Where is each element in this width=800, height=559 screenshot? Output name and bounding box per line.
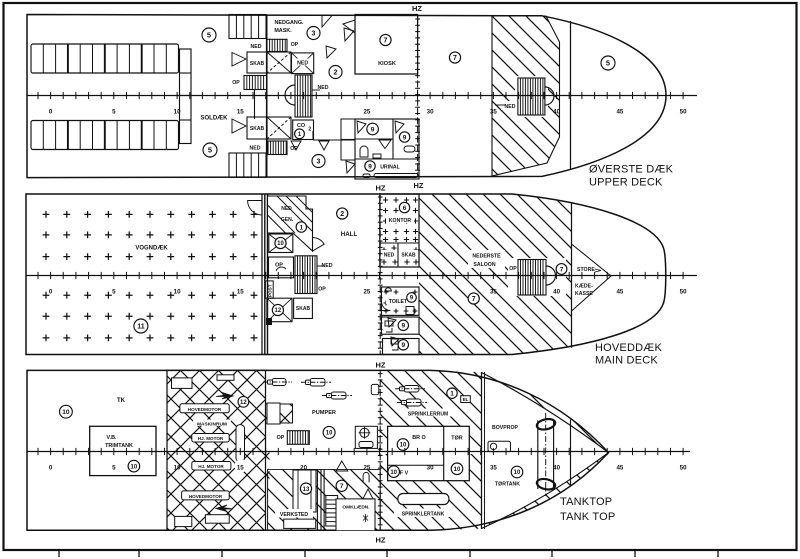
svg-text:TANKTOP: TANKTOP	[560, 496, 612, 508]
svg-text:45: 45	[616, 289, 623, 296]
svg-text:10: 10	[400, 443, 407, 449]
svg-text:5: 5	[112, 109, 116, 116]
hatched area fwd upper deck	[492, 16, 560, 176]
circled 9 wc1	[367, 123, 379, 135]
svg-text:KIOSK: KIOSK	[378, 61, 396, 67]
svg-text:3: 3	[317, 159, 321, 166]
bulkhead fwd upper deck	[570, 21, 572, 170]
svg-text:15: 15	[237, 289, 244, 296]
svg-text:TOILET: TOILET	[389, 299, 408, 305]
circled 1 upper deck	[295, 129, 305, 139]
circled 1 main deck	[296, 222, 306, 232]
svg-text:25: 25	[363, 465, 370, 472]
door kiosk	[343, 20, 355, 33]
circled 7 saloon low	[468, 293, 479, 304]
svg-text:PUMPER: PUMPER	[312, 410, 336, 416]
svg-text:50: 50	[680, 465, 687, 472]
ned skab labels	[381, 250, 397, 257]
forepeak V chain locker	[572, 244, 612, 311]
circled 5 aft top	[202, 28, 216, 42]
vb trimtank box	[90, 426, 156, 475]
doors toilet	[357, 121, 366, 133]
svg-text:1: 1	[299, 224, 303, 231]
svg-text:OP: OP	[232, 80, 240, 86]
svg-text:7: 7	[384, 38, 388, 45]
svg-text:HZ: HZ	[376, 184, 386, 193]
door hall	[313, 237, 325, 251]
dark elbow near wall	[266, 318, 272, 325]
svg-text:40: 40	[553, 465, 560, 472]
svg-text:9: 9	[368, 163, 372, 170]
svg-text:7: 7	[472, 296, 476, 303]
svg-text:NED: NED	[281, 206, 292, 212]
svg-text:9: 9	[403, 134, 407, 141]
svg-text:9: 9	[371, 126, 375, 133]
pill box engine room	[236, 425, 245, 462]
toilet block main deck	[381, 287, 419, 315]
el box	[461, 396, 471, 403]
hj motor 2	[192, 462, 231, 471]
kontor label	[386, 215, 414, 223]
urinal trough small	[363, 174, 370, 178]
svg-text:5: 5	[208, 146, 212, 155]
svg-text:HALL: HALL	[341, 231, 358, 238]
svg-text:7: 7	[560, 266, 564, 273]
hull outline upper deck	[27, 15, 666, 178]
bow thruster tunnel	[537, 421, 539, 490]
svg-text:HZ: HZ	[414, 181, 424, 190]
arrow bottom engine room	[216, 505, 233, 512]
svg-text:KONTOR: KONTOR	[389, 218, 412, 224]
circled 12 engine room	[238, 396, 249, 407]
cabin 9b main deck	[383, 339, 420, 355]
bulkhead fwd main deck	[571, 203, 573, 348]
svg-text:35: 35	[490, 289, 497, 296]
main stair upper deck	[295, 75, 312, 117]
svg-text:2: 2	[308, 127, 311, 133]
seat rows aft top	[31, 44, 179, 73]
svg-text:URINAL: URINAL	[380, 165, 400, 171]
door fan at wall top	[248, 201, 262, 216]
svg-text:45: 45	[616, 109, 623, 116]
svg-text:TØRTANK: TØRTANK	[495, 482, 520, 488]
superstructure wall main deck	[261, 194, 263, 355]
svg-text:TRIMTANK: TRIMTANK	[105, 443, 133, 449]
midship wall upper deck	[266, 15, 268, 178]
vogndaek label	[133, 242, 171, 251]
bottle verksted	[363, 472, 369, 482]
stair bottom NED/OP	[268, 141, 287, 155]
circled 11	[134, 319, 148, 333]
svg-text:GEN.: GEN.	[281, 217, 294, 223]
svg-text:9: 9	[401, 323, 405, 330]
svg-text:15: 15	[237, 109, 244, 116]
svg-text:5: 5	[112, 289, 116, 296]
svg-text:TØR: TØR	[451, 436, 462, 442]
HZ section line tank top	[378, 371, 383, 531]
svg-text:30: 30	[427, 465, 434, 472]
circled 1 tank top	[447, 388, 457, 398]
svg-text:SPRINKLERTANK: SPRINKLERTANK	[402, 512, 445, 518]
svg-text:10: 10	[131, 464, 138, 470]
crossed box bottom	[267, 117, 291, 139]
svg-text:HOVEDMOTOR: HOVEDMOTOR	[188, 407, 222, 412]
svg-text:STORE: STORE	[577, 267, 595, 273]
bow inner line top	[430, 371, 609, 453]
svg-text:12: 12	[275, 308, 282, 314]
svg-text:HZ: HZ	[376, 536, 386, 545]
centerline main deck	[26, 272, 697, 279]
arrow top engine room	[216, 393, 233, 400]
bow thruster motor	[488, 441, 511, 451]
vogndaek plus grid	[43, 211, 258, 341]
circled 13	[300, 483, 311, 494]
svg-text:OP: OP	[318, 287, 326, 293]
hull outline tank top	[27, 370, 609, 530]
svg-text:10: 10	[62, 409, 70, 416]
stair saloon	[508, 258, 566, 296]
svg-text:SKAB: SKAB	[250, 126, 265, 132]
circled 10 tortank	[511, 466, 523, 478]
svg-text:MASKINRUM: MASKINRUM	[197, 421, 227, 427]
windbreak bottom	[229, 153, 266, 177]
cross mark	[363, 514, 368, 522]
svg-text:9: 9	[401, 342, 405, 349]
verksted bottom box	[284, 519, 316, 528]
wall left of toilet block	[313, 139, 355, 141]
bow inner line bottom	[430, 453, 609, 531]
svg-text:OMKLÆDN.: OMKLÆDN.	[342, 505, 369, 511]
equipment column	[355, 426, 377, 448]
sprinkler pumps	[395, 386, 425, 393]
svg-text:HOVEDDÆK: HOVEDDÆK	[595, 342, 662, 354]
svg-text:SKAB: SKAB	[296, 306, 311, 312]
ned box top	[292, 53, 314, 74]
engine room cross hatch	[167, 370, 266, 530]
svg-text:10: 10	[174, 465, 181, 472]
svg-text:UPPER DECK: UPPER DECK	[589, 177, 663, 189]
svg-text:10: 10	[454, 467, 461, 473]
toilet block upper deck	[355, 119, 419, 179]
urinal trough	[374, 174, 418, 178]
stair top NED/OP	[267, 39, 287, 51]
svg-text:NED: NED	[250, 146, 261, 152]
engine room small boxes top	[172, 378, 193, 389]
svg-text:MASK.: MASK.	[274, 28, 292, 34]
svg-text:HZ: HZ	[412, 4, 422, 13]
station 15 white circle	[235, 460, 248, 473]
windbreak top	[229, 15, 266, 39]
svg-text:TANK TOP: TANK TOP	[560, 511, 615, 523]
svg-text:40: 40	[553, 109, 560, 116]
svg-text:SKAB: SKAB	[250, 61, 265, 67]
svg-text:SALOON: SALOON	[473, 262, 495, 268]
svg-text:BOVPROP: BOVPROP	[492, 425, 518, 431]
circled 5 fwd	[601, 56, 615, 70]
pumper room boundary	[266, 404, 293, 423]
omklaedn room	[336, 499, 375, 530]
svg-text:VERKSTED: VERKSTED	[280, 512, 309, 518]
svg-text:50: 50	[680, 109, 687, 116]
circled 2 upper deck	[329, 66, 342, 79]
svg-text:CO: CO	[297, 123, 305, 129]
hj motor 1	[192, 434, 229, 443]
svg-text:5: 5	[606, 59, 610, 68]
verksted area hatch	[268, 469, 381, 530]
post box	[265, 281, 273, 298]
door omklaedn 2	[363, 489, 373, 499]
svg-text:KÆDE-: KÆDE-	[575, 284, 593, 290]
circled 3 bottom	[312, 155, 325, 168]
svg-text:NEDGANG.: NEDGANG.	[274, 20, 304, 26]
circled 6	[399, 202, 409, 212]
svg-text:7: 7	[340, 483, 344, 490]
svg-text:NED: NED	[297, 61, 308, 67]
svg-text:OP: OP	[509, 266, 517, 272]
door triangles below co2	[291, 141, 301, 150]
skab main deck	[294, 298, 313, 318]
svg-text:25: 25	[363, 289, 370, 296]
svg-text:KASSE: KASSE	[575, 291, 593, 297]
svg-text:13: 13	[303, 487, 310, 493]
svg-text:NED: NED	[251, 44, 262, 50]
op stair small	[244, 76, 267, 90]
svg-text:POST: POST	[268, 284, 273, 297]
bulkhead engine fwd	[481, 372, 483, 529]
stair mid main deck	[295, 256, 317, 294]
stair treads verksted	[326, 496, 338, 527]
svg-text:10: 10	[174, 289, 181, 296]
sprinklerrum label	[402, 409, 454, 417]
white box near pumper wall	[267, 403, 280, 424]
svg-text:7: 7	[453, 55, 457, 62]
co2 room	[293, 120, 314, 140]
svg-text:HJ. MOTOR: HJ. MOTOR	[198, 436, 224, 441]
circled 7 at stair	[556, 264, 567, 275]
hull outline main deck	[26, 194, 666, 355]
svg-text:35: 35	[490, 109, 497, 116]
svg-text:SPRINKLERRUM: SPRINKLERRUM	[408, 412, 448, 418]
svg-text:NED: NED	[505, 104, 516, 110]
svg-text:6: 6	[403, 205, 407, 212]
skab bottom	[232, 119, 246, 133]
casing column amidships	[180, 49, 192, 144]
circled 2 main deck	[337, 208, 348, 219]
op box main deck	[269, 257, 294, 278]
circled 7 tank top	[336, 480, 347, 491]
svg-text:SKAB: SKAB	[401, 253, 416, 259]
svg-text:3: 3	[312, 31, 316, 38]
pumps aft	[263, 379, 292, 386]
svg-text:F V: F V	[400, 471, 409, 477]
svg-text:45: 45	[616, 465, 623, 472]
svg-text:10: 10	[174, 109, 181, 116]
svg-text:OP: OP	[277, 435, 285, 441]
svg-text:12: 12	[240, 400, 247, 406]
svg-text:10: 10	[390, 470, 397, 476]
circled 10 pumper	[323, 426, 335, 438]
svg-text:SOLDÆK: SOLDÆK	[201, 116, 229, 122]
skab top	[247, 52, 267, 73]
svg-text:25: 25	[363, 109, 370, 116]
svg-text:NEDERSTE: NEDERSTE	[472, 254, 501, 260]
seat rows aft bottom	[31, 121, 179, 150]
engine room crosshatch step	[266, 404, 293, 423]
svg-text:HOVEDMOTOR: HOVEDMOTOR	[189, 494, 223, 499]
sprinklertank	[398, 494, 449, 505]
svg-text:10: 10	[277, 241, 284, 247]
svg-text:15: 15	[237, 465, 244, 472]
fan box main deck	[269, 234, 293, 253]
nederste saloon label	[468, 250, 505, 268]
circled 5 aft bottom	[203, 143, 217, 157]
svg-text:5: 5	[112, 465, 116, 472]
svg-text:30: 30	[427, 109, 434, 116]
svg-text:MAIN DECK: MAIN DECK	[595, 355, 658, 367]
verksted label	[275, 509, 313, 518]
svg-text:HZ: HZ	[376, 361, 386, 370]
svg-text:0: 0	[49, 465, 53, 472]
hovedmotor 1	[180, 404, 229, 413]
verksted stair wall	[316, 469, 318, 530]
svg-text:V.B.: V.B.	[107, 435, 117, 441]
svg-text:10: 10	[326, 431, 333, 437]
svg-text:50: 50	[680, 289, 687, 296]
door skab top	[232, 53, 246, 67]
bro block	[388, 426, 470, 480]
svg-text:BR O: BR O	[412, 435, 425, 441]
verksted tool cabinet	[293, 470, 316, 512]
svg-text:11: 11	[137, 324, 145, 331]
fwd panel line	[570, 420, 572, 486]
sprinklertank area hatch	[380, 454, 481, 530]
wc fixtures	[360, 146, 368, 157]
centerline upper deck	[27, 92, 697, 99]
svg-text:10: 10	[514, 470, 521, 476]
crossed box 12	[267, 298, 292, 322]
stair band from upper deck	[268, 196, 313, 251]
svg-text:TK: TK	[117, 398, 126, 404]
svg-text:HJ. MOTOR: HJ. MOTOR	[198, 464, 224, 469]
svg-text:NED: NED	[384, 253, 395, 259]
door omklaedn 1	[336, 461, 348, 471]
svg-text:5: 5	[207, 31, 211, 40]
small rounded box pumper	[371, 384, 379, 394]
NED stair fwd upper deck	[515, 76, 548, 117]
bottom ruler ticks	[59, 550, 718, 557]
maskinrum label	[193, 420, 231, 427]
kontor block	[380, 194, 419, 267]
svg-text:ØVERSTE DÆK: ØVERSTE DÆK	[589, 164, 674, 176]
crossed box top	[267, 52, 291, 73]
hovedmotor 2	[182, 491, 230, 500]
svg-text:1: 1	[450, 391, 454, 398]
pumper white band below centerline	[270, 456, 380, 470]
HZ section line main deck	[378, 194, 383, 355]
circled 9 urinal	[365, 161, 375, 171]
svg-text:OP: OP	[291, 42, 299, 48]
svg-text:20: 20	[300, 465, 307, 472]
centerline tank top	[27, 448, 690, 455]
svg-text:EL: EL	[463, 397, 469, 402]
circled 9 wc2	[399, 132, 409, 142]
sprinklerrum hatch	[380, 371, 481, 449]
HZ section line upper deck	[415, 16, 420, 177]
circled 10 aft	[60, 405, 73, 418]
svg-text:35: 35	[490, 465, 497, 472]
sprinklertank label	[394, 509, 452, 518]
svg-text:2: 2	[334, 70, 338, 77]
svg-text:40: 40	[553, 289, 560, 296]
kiosk	[355, 15, 418, 75]
circled 3 top	[307, 27, 320, 40]
svg-text:0: 0	[49, 109, 53, 116]
cabin 9a main deck	[381, 317, 419, 334]
door triangles nedgang area	[322, 16, 332, 28]
svg-text:2: 2	[340, 211, 344, 218]
svg-text:0: 0	[49, 289, 53, 296]
engine room bottom boxes	[175, 516, 192, 526]
circled 7 fwd upper deck	[449, 52, 460, 63]
svg-text:VOGNDÆK: VOGNDÆK	[135, 246, 168, 252]
